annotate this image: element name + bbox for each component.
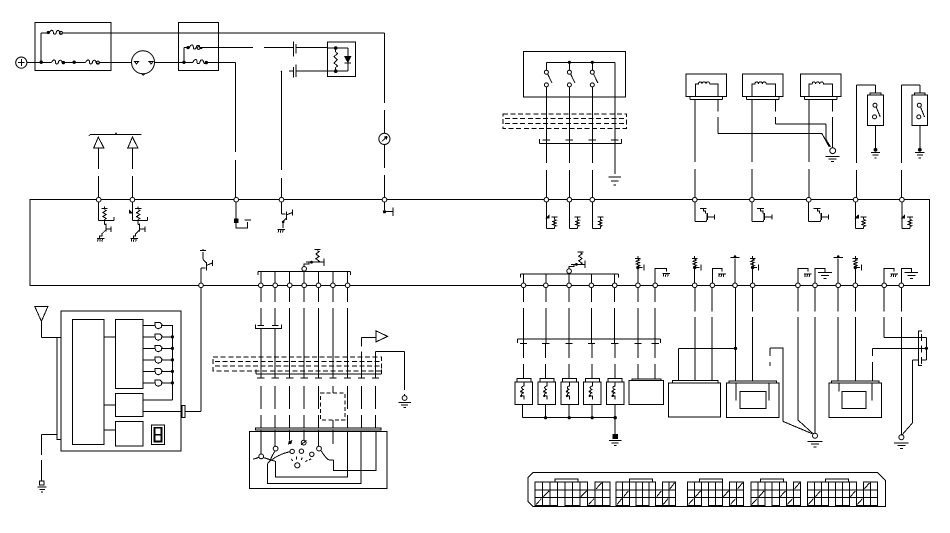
shield ground bbox=[830, 148, 836, 154]
distributor cap terminal 3 bbox=[289, 430, 291, 441]
connector pin group 2 hatched pins bbox=[617, 483, 674, 505]
wires ECU to injector bar bbox=[523, 288, 525, 340]
injector feed bar bbox=[518, 338, 661, 340]
wire ECU x=838.2 to VSV box bbox=[837, 288, 839, 381]
connector bar below shield bbox=[540, 143, 622, 145]
injector 1 bbox=[517, 379, 531, 383]
condenser connector cup bbox=[255, 324, 281, 328]
distributor connector pin x=375.4 bbox=[372, 377, 379, 379]
A/C amplifier box bbox=[61, 311, 181, 451]
tachometer wire bbox=[361, 338, 363, 374]
advance curve 3 bbox=[321, 451, 334, 461]
crank angle sensor G1 (pickup coil) bbox=[686, 74, 727, 97]
wire switch 546.4 down bbox=[545, 87, 547, 114]
wire ECU x=815 to ground bbox=[814, 288, 816, 434]
ECU IG input circuit bbox=[235, 202, 237, 219]
ECU injector drive transistor bbox=[569, 264, 574, 268]
ECU internal ground x=655.2 bbox=[655, 268, 666, 283]
wire switch 1 to ground bbox=[875, 126, 877, 149]
battery B+ terminal bbox=[16, 57, 27, 68]
wires injector bar to injectors bbox=[522, 343, 524, 378]
rotor pivot bbox=[295, 463, 300, 468]
amplifier internal link 3 bbox=[104, 429, 116, 431]
wire G2 shield bbox=[775, 99, 777, 124]
ECU igniter signal transistor bbox=[200, 268, 202, 283]
distributor cap terminal 1 bbox=[260, 430, 262, 454]
wire connector to main relay top bbox=[296, 47, 327, 49]
injector 5 bbox=[608, 379, 622, 383]
amplifier internal link 2 bbox=[104, 404, 116, 406]
wire ECU x=797.9 to ground bbox=[797, 288, 799, 420]
wire ECU to A/C amplifier bbox=[200, 288, 202, 412]
wires condensers down bbox=[260, 329, 262, 374]
injector bar pin x=614.7 bbox=[614, 339, 616, 343]
fusible link FL1 bbox=[52, 60, 65, 64]
connector pin at x=614.8 bbox=[614, 128, 616, 143]
ECU main relay drive transistor bbox=[281, 202, 283, 214]
ECU knock input circuit 3 bbox=[591, 202, 593, 228]
ECU internal ground x=884.2 bbox=[884, 269, 894, 283]
injector bar pin x=591.4 bbox=[590, 339, 592, 343]
ECU sensor input circuit x=751.9 bbox=[751, 202, 753, 221]
ECU sensor pullup x=855.3 bbox=[854, 269, 856, 284]
wire G1 shield bbox=[717, 99, 719, 133]
switch element at x=592.3 bbox=[591, 62, 593, 70]
crank angle sensor G2 (pickup coil) bbox=[743, 74, 784, 97]
wire G1 signal to ECU bbox=[694, 99, 696, 197]
wire ECU x=884.2 to igniter bbox=[883, 288, 885, 338]
ECU input circuit (resistor-transistor) pin 1 bbox=[98, 202, 100, 221]
ECU earth terminal x=815 bbox=[815, 269, 825, 283]
ECU output bracket left group bbox=[258, 272, 351, 276]
open connector stub bbox=[770, 348, 783, 421]
distributor connector pin x=289.7 bbox=[286, 377, 293, 379]
vacuum advance dashed box bbox=[320, 393, 345, 420]
output lamp array bbox=[143, 324, 155, 326]
fuse F2 bbox=[186, 46, 189, 49]
VSV inner connector bbox=[842, 391, 866, 408]
sensor switch box bbox=[523, 51, 625, 96]
switch common rail bbox=[546, 61, 614, 63]
wire ignition feed bbox=[111, 62, 132, 64]
wire ECU x=694.7 down bbox=[694, 288, 696, 381]
connector pin group 4 hatched pins bbox=[752, 483, 800, 505]
ISC valve box bbox=[726, 383, 779, 418]
ECU knock input circuit 1 bbox=[545, 202, 547, 228]
noise filter capacitor 2 bbox=[128, 137, 138, 148]
wire filter 1 to ECU bbox=[98, 148, 100, 198]
riser to fuse F2 bbox=[183, 48, 185, 63]
wire filter 2 to ECU bbox=[131, 148, 133, 198]
distributor connector bar bbox=[256, 373, 382, 375]
injector 4 bbox=[585, 379, 599, 383]
shielded cable band (switch box) bbox=[503, 114, 627, 128]
igniter emitter to ground bbox=[911, 360, 913, 423]
injector bar pin x=655.2 bbox=[654, 339, 656, 343]
ignition switch bbox=[132, 51, 155, 74]
rotor contact c bbox=[310, 452, 314, 456]
seven segment digit bbox=[155, 428, 162, 442]
wire ignition switch to fuse box bbox=[154, 61, 178, 63]
connector pin group 1 hatched pins bbox=[536, 483, 602, 505]
wire diagnostic to ECU bbox=[384, 145, 386, 198]
wires connector bar to distributor bbox=[260, 386, 262, 428]
distributor connector pin x=304.2 bbox=[301, 377, 308, 379]
lamp array bus bbox=[171, 325, 173, 400]
connector pin group 1 grid bbox=[535, 482, 610, 506]
diagnostic connector circle bbox=[379, 133, 390, 144]
wire switch 2 to ground bbox=[919, 126, 921, 149]
wire main B+ top rail to diagnostic drop bbox=[62, 32, 385, 34]
ECU cap terminal x=838.2 bbox=[837, 258, 839, 283]
ECU diagnostic terminal circuit bbox=[384, 202, 386, 210]
amplifier block lower right bbox=[115, 422, 143, 447]
ground sensor common bbox=[813, 433, 818, 438]
ECU bracket pin circle 2 bbox=[567, 269, 572, 274]
injector bar pin x=545.8 bbox=[545, 339, 547, 343]
ECU earth terminal x=901.3 bbox=[901, 269, 911, 283]
wire to vacuum advance box bbox=[332, 386, 334, 393]
ECU output bracket injector group bbox=[521, 274, 619, 278]
ground shield drain bbox=[609, 176, 621, 178]
amplifier output tab bbox=[182, 405, 185, 417]
fusible link box bbox=[35, 22, 111, 70]
wire ECU x=752.6 to ISC box bbox=[752, 288, 754, 381]
amplifier block mid right bbox=[115, 394, 143, 417]
advance curve 2 bbox=[270, 451, 276, 461]
antenna symbol bbox=[35, 307, 48, 322]
connector pin group 3 hatched pins bbox=[689, 483, 743, 505]
ECU multi-pin connector housing bbox=[528, 473, 885, 507]
connector pin group 4 grid bbox=[751, 482, 801, 506]
fuse box 2 bbox=[178, 22, 218, 70]
ECU sensor pullup x=752.6 bbox=[752, 269, 754, 284]
connector pin group 5 grid bbox=[807, 482, 877, 506]
ECU ignition output transistor bbox=[304, 262, 309, 266]
ground injector common bbox=[613, 434, 617, 438]
distributor connector pin x=332.9 bbox=[329, 377, 336, 379]
wire G2 signal to ECU bbox=[751, 99, 753, 197]
tachometer signal arrow bbox=[376, 331, 388, 342]
igniter power transistor bbox=[919, 331, 922, 365]
wire switch 2 to ECU bbox=[901, 85, 903, 197]
distributor cap terminal 6 bbox=[332, 430, 334, 444]
connector pin group 2 grid bbox=[616, 482, 675, 506]
wire ECU x=855.3 to VSV box bbox=[854, 288, 856, 381]
distributor loop 2 bbox=[268, 431, 362, 483]
ECU (engine control unit) box bbox=[30, 200, 930, 286]
wire switch 569.4 down bbox=[568, 87, 570, 114]
wire bottom feed inside fusible link box bbox=[35, 62, 51, 64]
ECU sensor pullup x=694.7 bbox=[694, 269, 696, 284]
wire antenna to amplifier bbox=[40, 321, 42, 337]
connector pin group 3 key tab bbox=[700, 479, 723, 482]
wire NE signal to ECU bbox=[808, 99, 810, 197]
wire switch 1 top bbox=[875, 85, 877, 93]
connector J1 bbox=[292, 42, 294, 78]
ECU sensor pullup x=637.9 bbox=[637, 269, 639, 284]
distributor loop 1 bbox=[276, 431, 348, 477]
distributor cap terminal 2 bbox=[274, 430, 276, 446]
connector pin group 5 hatched pins bbox=[808, 483, 869, 505]
injector bar pin x=569.1 bbox=[568, 339, 570, 343]
distributor connector pin x=347.6 bbox=[344, 377, 351, 379]
wire fuse output to connector bbox=[218, 47, 253, 49]
wire switch 1 to ECU bbox=[855, 85, 857, 197]
crank angle sensor NE (pickup coil) bbox=[801, 74, 842, 97]
wire branch horizontal bbox=[679, 347, 736, 349]
timing connector switch 1 bbox=[868, 95, 884, 126]
connector pin at x=569.4 bbox=[568, 128, 570, 143]
connector pin group 4 key tab bbox=[760, 479, 783, 482]
wire battery to fusible link box bbox=[27, 62, 35, 64]
ECU top edge pin circles bbox=[96, 197, 904, 202]
rotor contact b bbox=[299, 449, 303, 453]
wire ECU x=712.4 down bbox=[711, 288, 713, 381]
amplifier connector strip bbox=[57, 338, 61, 440]
igniter base wire bbox=[873, 347, 927, 349]
distributor cap terminal 4 bbox=[303, 430, 305, 440]
throttle sensor box bbox=[669, 383, 721, 417]
distributor connector pin x=260.8 bbox=[257, 377, 264, 379]
wire ECU x=901.3 to ground bbox=[901, 288, 903, 435]
condenser connector caps bbox=[257, 324, 264, 326]
switch common down wire bbox=[614, 62, 616, 114]
fuse F1 bbox=[193, 60, 206, 64]
fusible link FL2 bbox=[86, 60, 99, 64]
wire IG output down to ECU bbox=[218, 61, 235, 63]
distributor connector pin x=318.5 bbox=[315, 377, 322, 379]
switch element at x=546.4 bbox=[545, 62, 547, 70]
wires connector to ECU bbox=[545, 144, 547, 198]
timing connector switch 2 bbox=[912, 95, 928, 126]
wire lower fuse row bbox=[178, 61, 187, 63]
riser to upper fuse bbox=[40, 33, 42, 62]
connector pin at x=546.4 bbox=[545, 128, 547, 143]
advance curve 1 bbox=[268, 452, 291, 464]
noise filter rail bbox=[90, 133, 141, 135]
distributor connector pin x=275.2 bbox=[272, 377, 279, 379]
injector 2 bbox=[540, 379, 554, 383]
ECU internal ground x=797.9 bbox=[798, 269, 808, 283]
ECU input circuit (resistor-transistor) pin 2 bbox=[131, 202, 133, 221]
rotor contact a bbox=[290, 449, 294, 453]
injector bar pin x=523.5 bbox=[523, 339, 525, 343]
connector pin group 2 key tab bbox=[630, 479, 653, 482]
ECU sensor input circuit x=694.8 bbox=[694, 202, 696, 221]
connector pin group 1 key tab bbox=[555, 479, 578, 482]
main relay bbox=[327, 42, 355, 77]
VSV valve box bbox=[829, 383, 882, 418]
distributor housing bbox=[250, 431, 387, 488]
ECU switch input circuit x=901.9 bbox=[901, 202, 903, 228]
wire ECU x=735 to ISC box bbox=[735, 288, 737, 381]
distributor loop 3 bbox=[333, 431, 376, 470]
wire NE shield bbox=[832, 99, 834, 147]
amplifier main IC block bbox=[73, 320, 104, 445]
wire switch 2 top bbox=[919, 85, 921, 93]
injector bar pin x=637.9 bbox=[637, 339, 639, 343]
wire switch 592.3 down bbox=[591, 87, 593, 114]
ECU switch input circuit x=855.6 bbox=[855, 202, 857, 228]
connector pin group 5 key tab bbox=[825, 479, 848, 482]
fuse upper row bbox=[47, 31, 50, 34]
ground igniter bbox=[899, 435, 904, 440]
injector common line bbox=[521, 404, 523, 417]
distributor cap terminal 5 bbox=[318, 430, 320, 446]
ground switch 2 bbox=[918, 148, 922, 152]
connector pin group 3 grid bbox=[688, 482, 744, 506]
amplifier ground wire bbox=[41, 434, 56, 436]
switch element at x=569.4 bbox=[568, 62, 570, 70]
connector pin at x=592.3 bbox=[591, 128, 593, 143]
shielded cable band (distributor) bbox=[213, 357, 381, 371]
resistor box bbox=[629, 381, 664, 405]
distributor connector pin x=361.5 bbox=[358, 377, 365, 379]
ground switch 1 bbox=[874, 148, 878, 152]
ECU knock input circuit 2 bbox=[568, 202, 570, 228]
ECU cap terminal x=735 bbox=[734, 258, 736, 283]
relay diode bbox=[336, 47, 348, 49]
injector 3 bbox=[563, 379, 577, 383]
ground distributor shield bbox=[402, 396, 407, 401]
wires ECU to resistor box bbox=[637, 343, 639, 379]
relay coil bbox=[327, 47, 335, 49]
ISC inner connector bbox=[740, 391, 766, 408]
wires ECU to igniter/distributor bbox=[260, 288, 262, 323]
wire diagnostic drop bbox=[384, 33, 386, 133]
ground amplifier bbox=[39, 481, 43, 485]
ECU bottom edge pin circles bbox=[199, 283, 904, 288]
indicator display bezel bbox=[151, 425, 164, 445]
distributor shield drain wire bbox=[374, 351, 376, 374]
amplifier block upper right bbox=[115, 320, 143, 389]
wire connector branch down to ECU bbox=[280, 70, 283, 72]
ECU sensor input circuit x=808.7 bbox=[808, 202, 810, 221]
shield drain to ground bbox=[614, 144, 616, 174]
distributor cap bar bbox=[255, 428, 381, 430]
wires through shield band bbox=[545, 114, 547, 128]
amplifier internal link 1 bbox=[104, 336, 116, 338]
wire connector to main relay bottom bbox=[296, 70, 327, 72]
noise filter capacitor 1 bbox=[94, 137, 104, 148]
ECU internal ground x=712.4 bbox=[712, 269, 722, 283]
ECU bracket pin circle bbox=[302, 267, 307, 272]
